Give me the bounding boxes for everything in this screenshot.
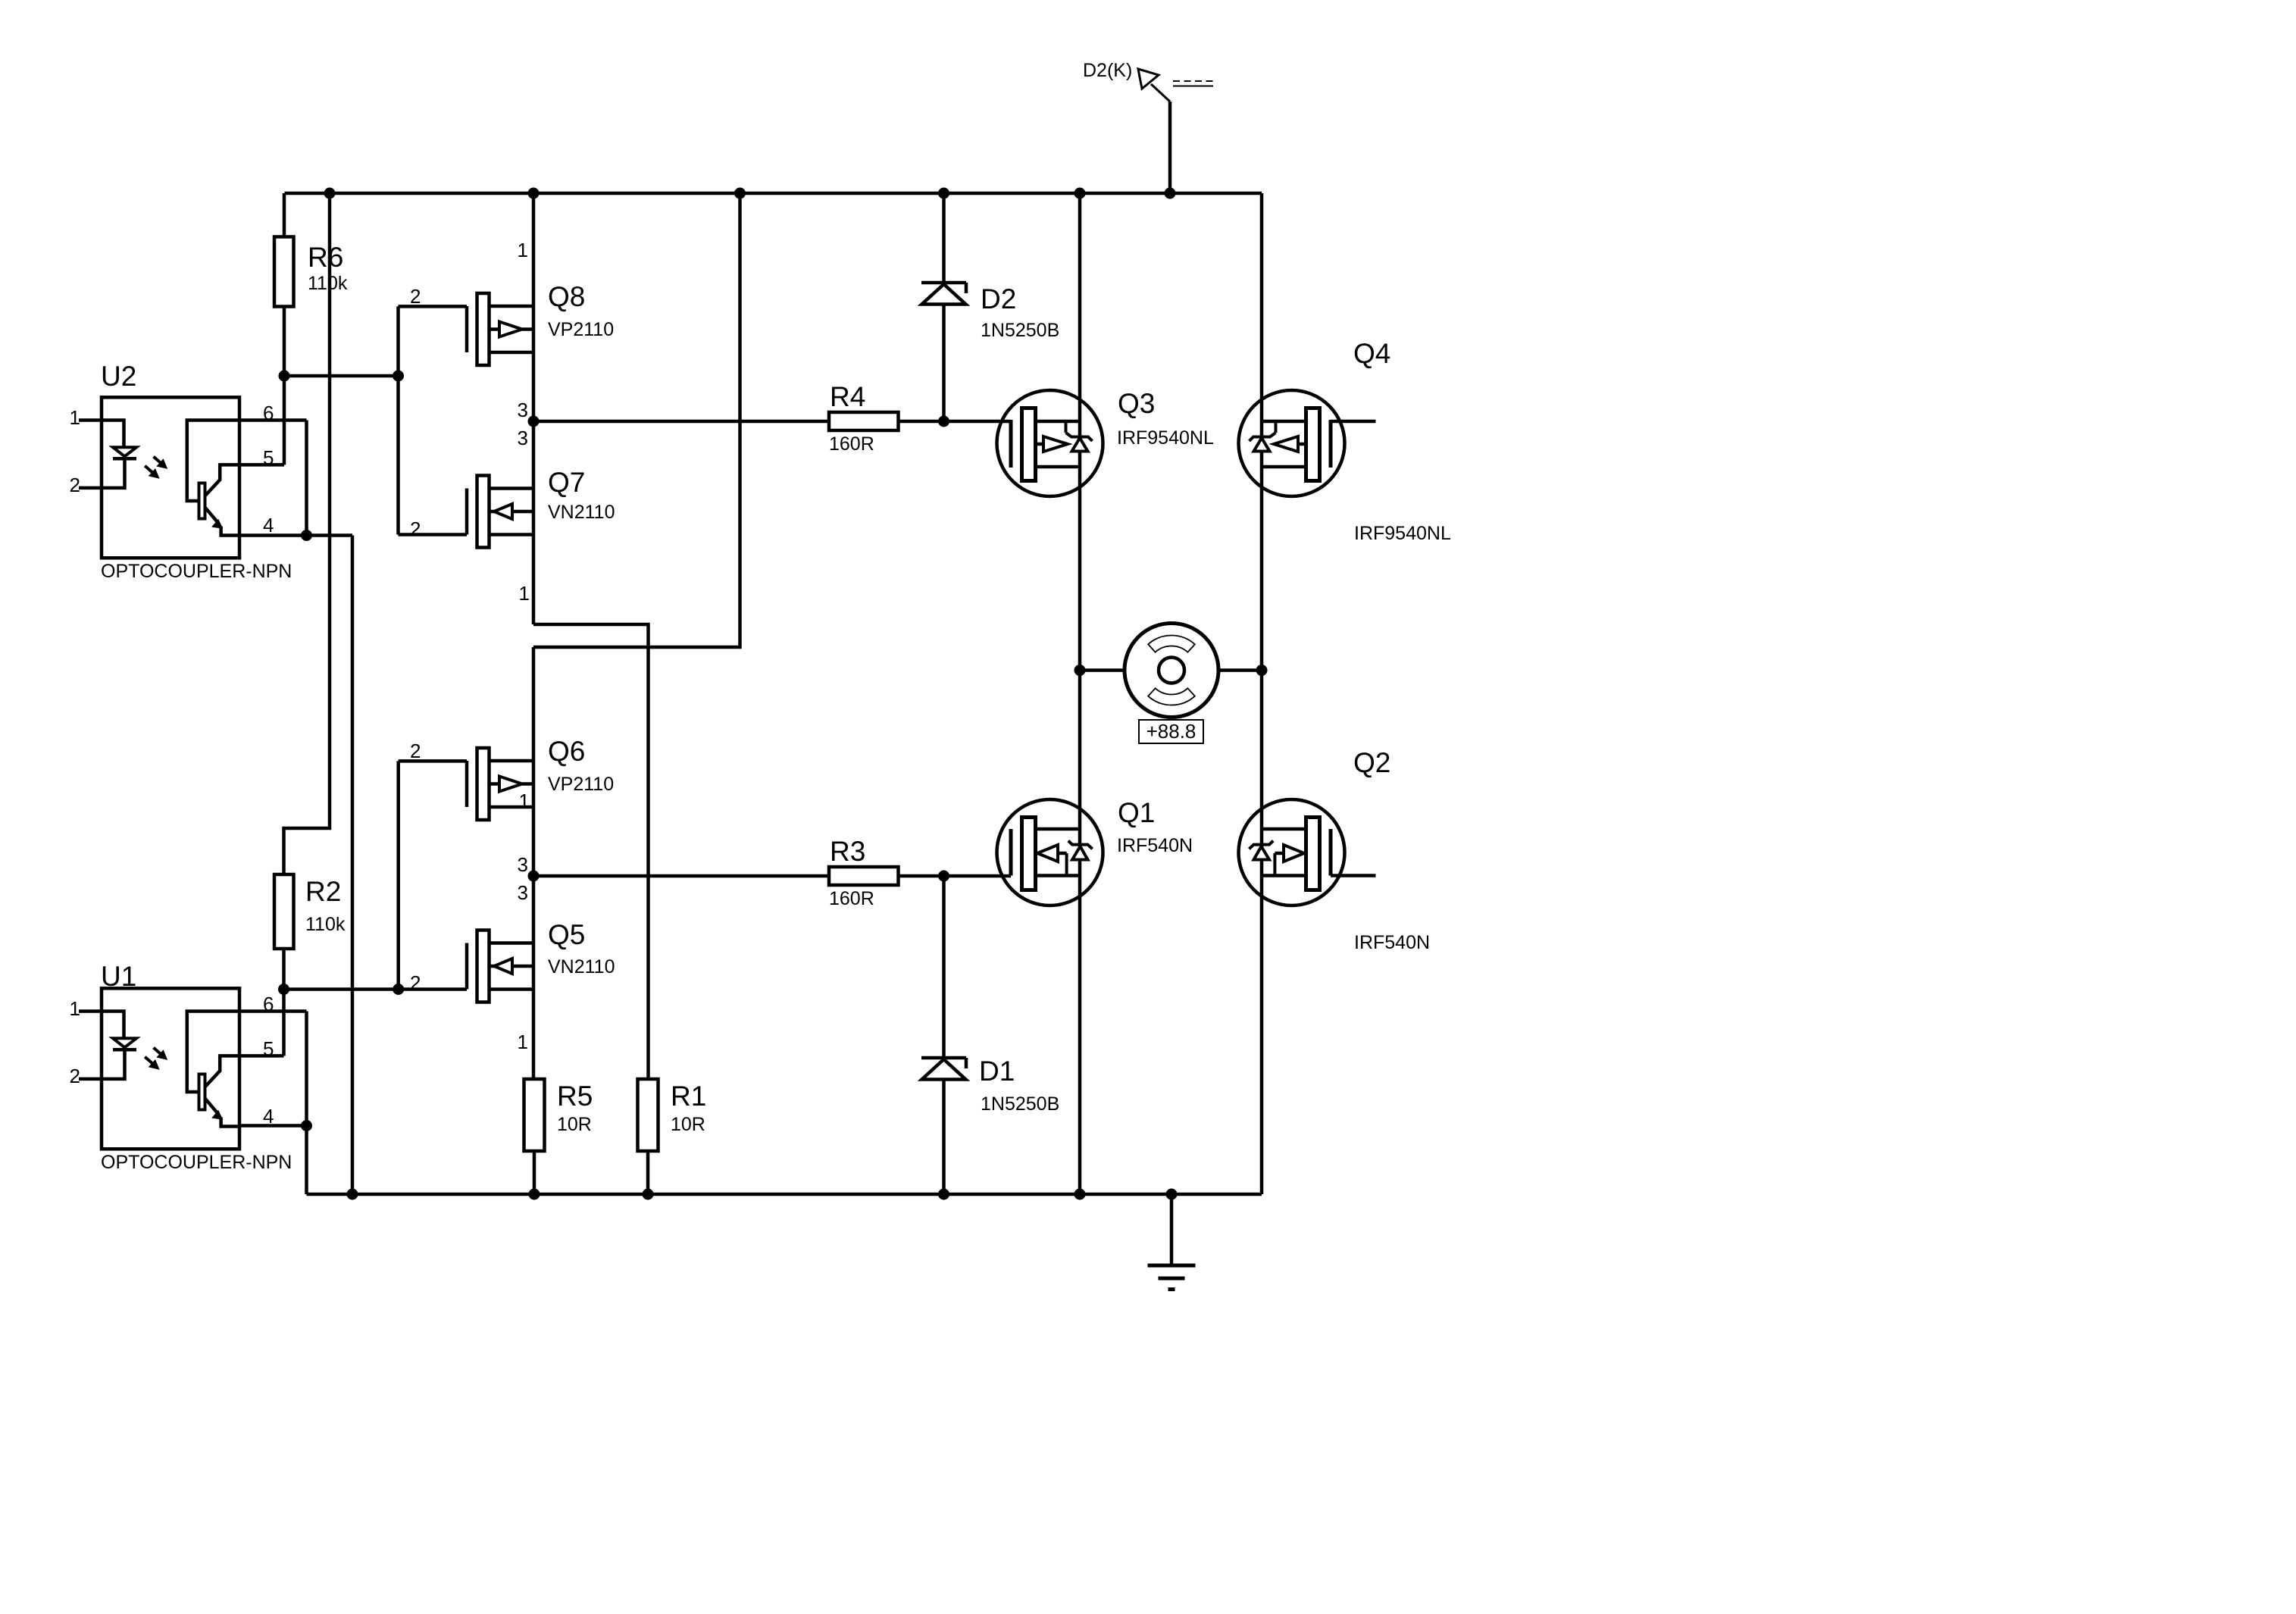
svg-text:160R: 160R	[829, 433, 874, 455]
svg-text:D2: D2	[981, 283, 1016, 314]
svg-text:1N5250B: 1N5250B	[981, 320, 1059, 341]
svg-text:U1: U1	[101, 961, 136, 992]
svg-text:IRF540N: IRF540N	[1354, 932, 1430, 953]
svg-text:IRF9540NL: IRF9540NL	[1354, 523, 1451, 544]
svg-text:Q7: Q7	[548, 467, 585, 498]
svg-text:OPTOCOUPLER-NPN: OPTOCOUPLER-NPN	[101, 1152, 292, 1173]
svg-text:3: 3	[518, 399, 528, 421]
svg-text:10R: 10R	[671, 1114, 705, 1135]
svg-text:5: 5	[263, 1037, 274, 1060]
svg-text:1: 1	[519, 582, 530, 605]
svg-text:VP2110: VP2110	[548, 319, 614, 340]
svg-text:IRF540N: IRF540N	[1117, 835, 1193, 856]
svg-text:Q4: Q4	[1353, 338, 1390, 369]
svg-text:2: 2	[410, 740, 421, 762]
svg-text:6: 6	[263, 993, 274, 1015]
svg-text:VN2110: VN2110	[548, 956, 615, 977]
svg-text:R5: R5	[557, 1081, 593, 1112]
svg-text:Q5: Q5	[548, 919, 585, 950]
svg-text:2: 2	[70, 1065, 80, 1087]
svg-text:R2: R2	[305, 876, 341, 907]
svg-text:3: 3	[518, 427, 528, 449]
svg-text:Q8: Q8	[548, 281, 585, 312]
svg-text:2: 2	[410, 518, 421, 540]
svg-text:D1: D1	[979, 1056, 1015, 1087]
svg-text:4: 4	[263, 514, 274, 536]
svg-text:VN2110: VN2110	[548, 502, 615, 523]
svg-text:1: 1	[518, 1031, 528, 1053]
svg-text:1: 1	[70, 406, 80, 429]
svg-text:Q3: Q3	[1118, 388, 1155, 419]
svg-text:R1: R1	[671, 1081, 706, 1112]
svg-text:R6: R6	[308, 242, 343, 273]
svg-text:3: 3	[518, 881, 528, 904]
svg-text:2: 2	[410, 285, 421, 308]
svg-text:Q6: Q6	[548, 736, 585, 767]
svg-text:+88.8: +88.8	[1146, 720, 1196, 743]
svg-text:R4: R4	[830, 381, 865, 412]
svg-text:4: 4	[263, 1105, 274, 1128]
svg-text:U2: U2	[101, 361, 136, 392]
svg-text:1: 1	[518, 239, 528, 261]
svg-text:OPTOCOUPLER-NPN: OPTOCOUPLER-NPN	[101, 561, 292, 582]
svg-text:110k: 110k	[305, 914, 346, 935]
svg-text:1N5250B: 1N5250B	[981, 1093, 1059, 1115]
svg-text:Q1: Q1	[1118, 797, 1155, 828]
svg-text:Q2: Q2	[1353, 747, 1390, 778]
svg-text:R3: R3	[830, 836, 865, 867]
svg-text:1: 1	[70, 997, 80, 1020]
svg-text:160R: 160R	[829, 888, 874, 909]
svg-text:2: 2	[70, 474, 80, 496]
svg-text:IRF9540NL: IRF9540NL	[1117, 427, 1214, 449]
svg-text:6: 6	[263, 402, 274, 424]
svg-text:110k: 110k	[308, 273, 348, 294]
svg-text:VP2110: VP2110	[548, 774, 614, 795]
svg-text:10R: 10R	[557, 1114, 592, 1135]
svg-text:D2(K): D2(K)	[1083, 60, 1132, 81]
svg-text:1: 1	[519, 790, 530, 812]
svg-text:3: 3	[518, 853, 528, 876]
svg-text:2: 2	[410, 971, 421, 994]
svg-text:5: 5	[263, 446, 274, 469]
